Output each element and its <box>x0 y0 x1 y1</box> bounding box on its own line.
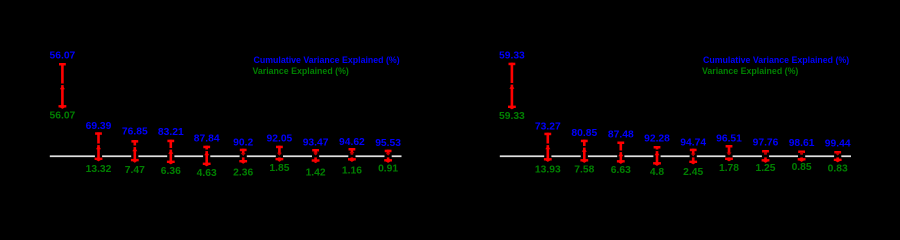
svg-text:1.25: 1.25 <box>755 163 775 174</box>
right panel errorbar PC1 <box>508 63 516 110</box>
svg-text:95.53: 95.53 <box>375 138 401 149</box>
left panel errorbar PC8 <box>312 149 320 163</box>
svg-text:13.93: 13.93 <box>535 165 561 176</box>
svg-text:59.33: 59.33 <box>499 51 525 62</box>
left panel errorbar PC6 <box>239 149 247 164</box>
svg-text:92.05: 92.05 <box>267 134 293 145</box>
svg-text:1.85: 1.85 <box>269 163 289 174</box>
left panel errorbar PC2 <box>95 132 103 161</box>
left panel errorbar PC10 <box>384 150 392 163</box>
svg-text:Cumulative Variance Explained: Cumulative Variance Explained (%) <box>703 55 849 65</box>
left panel errorbar PC4 <box>167 140 175 165</box>
right panel errorbar PC10 <box>834 151 842 162</box>
right panel x-axis line <box>500 155 851 157</box>
left panel errorbar PC3 <box>131 140 139 163</box>
svg-text:Variance Explained (%): Variance Explained (%) <box>702 66 798 76</box>
svg-text:Cumulative Variance Explained: Cumulative Variance Explained (%) <box>254 55 400 65</box>
left panel errorbar PC5 <box>203 146 211 167</box>
right panel errorbar PC3 <box>580 140 588 163</box>
svg-text:99.44: 99.44 <box>825 139 851 150</box>
svg-text:7.47: 7.47 <box>125 165 145 176</box>
svg-text:Variance Explained (%): Variance Explained (%) <box>253 66 349 76</box>
svg-text:90.2: 90.2 <box>233 138 253 149</box>
svg-text:0.83: 0.83 <box>828 164 848 175</box>
svg-text:56.07: 56.07 <box>50 51 76 62</box>
right panel errorbar PC9 <box>798 151 806 162</box>
svg-text:87.48: 87.48 <box>608 130 634 141</box>
svg-text:93.47: 93.47 <box>303 137 329 148</box>
svg-text:59.33: 59.33 <box>499 111 525 122</box>
svg-text:7.58: 7.58 <box>574 165 594 176</box>
svg-text:98.61: 98.61 <box>789 138 815 149</box>
svg-text:13.32: 13.32 <box>86 164 112 175</box>
svg-text:4.8: 4.8 <box>650 167 665 178</box>
svg-text:94.74: 94.74 <box>680 137 706 148</box>
left panel errorbar PC1 <box>59 63 67 109</box>
right panel errorbar PC6 <box>689 149 697 165</box>
right panel errorbar PC8 <box>762 150 770 163</box>
right panel errorbar PC2 <box>544 133 552 162</box>
svg-text:1.16: 1.16 <box>342 166 362 177</box>
svg-text:76.85: 76.85 <box>122 126 148 137</box>
svg-text:2.36: 2.36 <box>233 168 253 179</box>
svg-text:73.27: 73.27 <box>535 121 561 132</box>
svg-text:97.76: 97.76 <box>753 138 779 149</box>
svg-text:56.07: 56.07 <box>50 111 76 122</box>
svg-text:92.28: 92.28 <box>644 134 670 145</box>
svg-text:80.85: 80.85 <box>571 128 597 139</box>
svg-text:69.39: 69.39 <box>86 121 112 132</box>
svg-text:87.84: 87.84 <box>194 133 220 144</box>
svg-text:0.85: 0.85 <box>792 162 812 173</box>
svg-text:1.42: 1.42 <box>306 168 326 179</box>
right panel errorbar PC4 <box>617 142 625 164</box>
svg-text:94.62: 94.62 <box>339 137 365 148</box>
left panel errorbar PC9 <box>348 148 356 162</box>
left panel x-axis line <box>50 155 402 157</box>
svg-text:6.36: 6.36 <box>161 166 181 177</box>
left panel errorbar PC7 <box>276 146 284 162</box>
right panel errorbar PC7 <box>725 145 733 161</box>
svg-text:1.78: 1.78 <box>719 163 739 174</box>
svg-text:0.91: 0.91 <box>378 164 398 175</box>
svg-text:96.51: 96.51 <box>716 134 742 145</box>
svg-text:6.63: 6.63 <box>611 165 631 176</box>
svg-text:4.63: 4.63 <box>197 168 217 179</box>
svg-text:83.21: 83.21 <box>158 127 184 138</box>
svg-text:2.45: 2.45 <box>683 167 703 178</box>
right panel errorbar PC5 <box>653 146 661 166</box>
